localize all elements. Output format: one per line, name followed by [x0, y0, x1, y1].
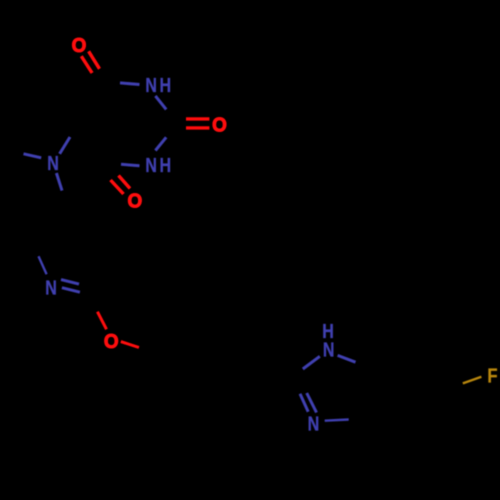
svg-text:O: O: [104, 331, 119, 353]
svg-text:N: N: [323, 340, 335, 362]
svg-text:O: O: [127, 191, 142, 213]
svg-text:N: N: [145, 155, 157, 177]
svg-text:N: N: [47, 153, 59, 175]
svg-text:O: O: [72, 35, 87, 57]
svg-text:O: O: [212, 115, 227, 137]
svg-text:N: N: [308, 414, 320, 436]
svg-text:H: H: [159, 75, 171, 97]
svg-text:F: F: [487, 365, 497, 387]
svg-text:H: H: [159, 155, 171, 177]
svg-text:N: N: [45, 278, 57, 300]
svg-text:N: N: [145, 75, 157, 97]
